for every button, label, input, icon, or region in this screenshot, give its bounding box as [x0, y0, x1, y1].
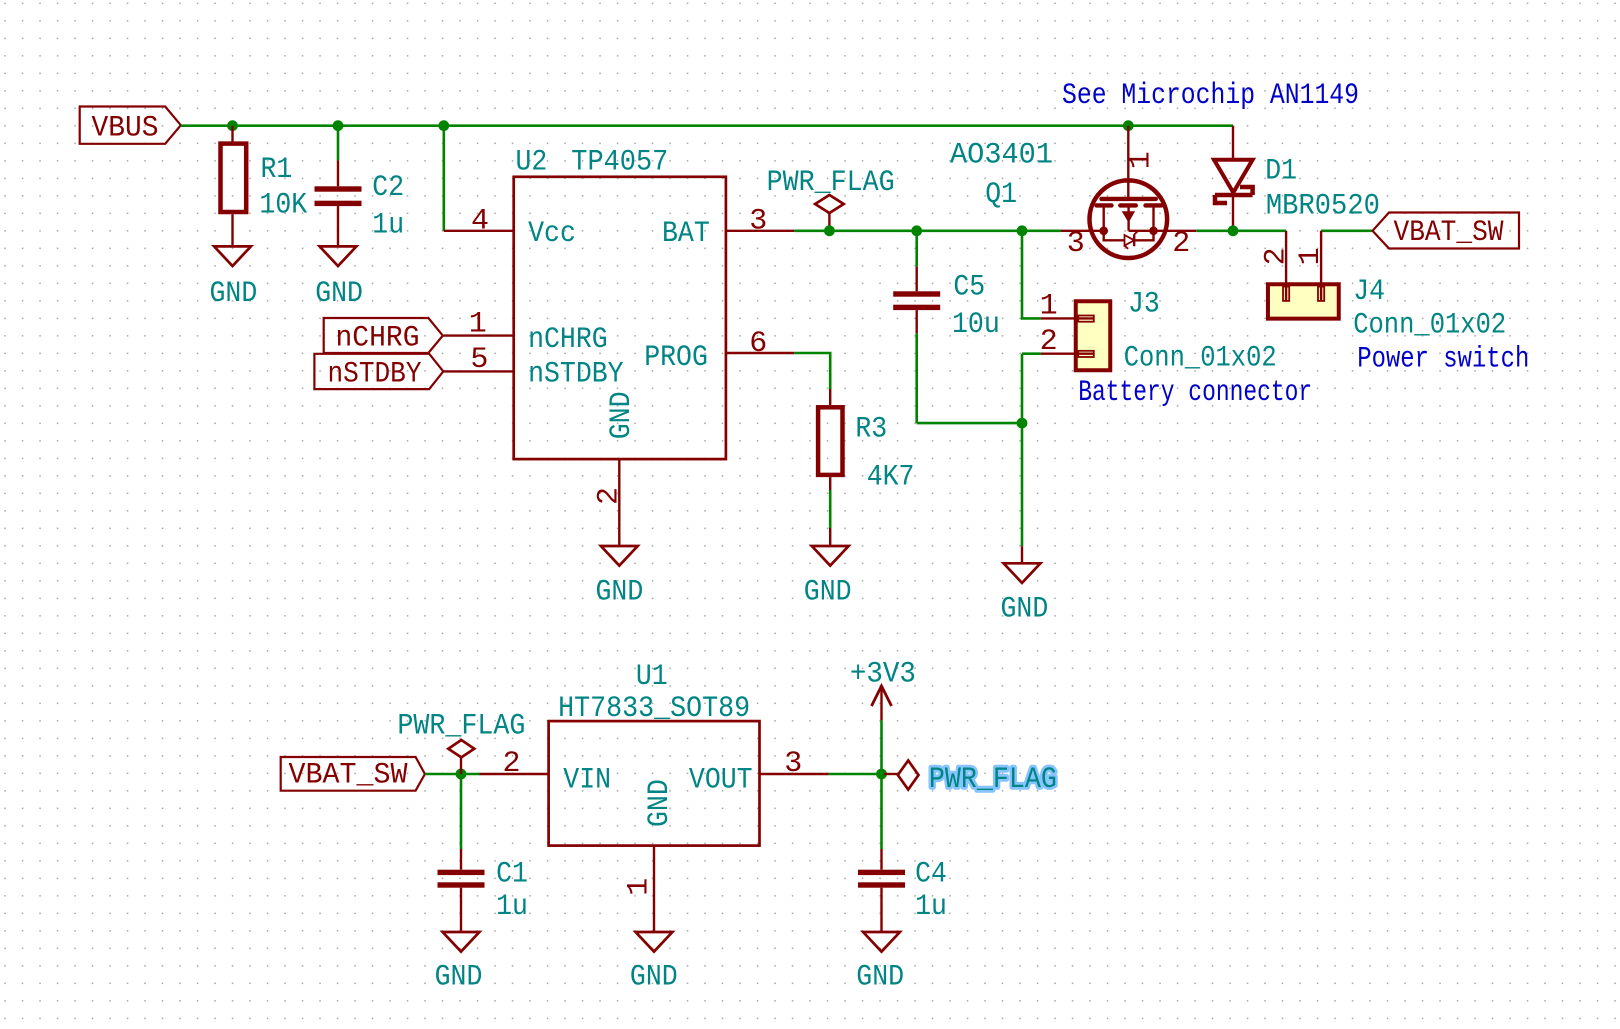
junction at +3V3 [876, 769, 887, 780]
svg-text:J3: J3 [1128, 288, 1160, 322]
svg-text:nSTDBY: nSTDBY [528, 357, 624, 391]
svg-text:1u: 1u [915, 890, 947, 924]
ground below C1 [443, 932, 480, 952]
U2 pin 2 GND [618, 459, 620, 546]
IC U2 TP4057 body [514, 177, 726, 459]
U2 pin 5 nSTDBY [444, 370, 514, 372]
svg-text:GND: GND [605, 392, 639, 440]
power +3V3 [880, 720, 883, 774]
svg-text:GND: GND [315, 277, 363, 311]
svg-text:1: 1 [1040, 290, 1058, 324]
svg-text:2: 2 [1259, 247, 1293, 265]
transistor Q1 AO3401 [1090, 180, 1168, 258]
svg-text:1: 1 [1294, 247, 1328, 265]
svg-text:nSTDBY: nSTDBY [328, 358, 422, 392]
svg-text:2: 2 [1172, 227, 1190, 261]
wire R3 to gnd [829, 490, 832, 528]
connector J4 pin 2 [1285, 231, 1287, 301]
IC U1 HT7833 body [549, 721, 760, 846]
junction at C1 [456, 769, 467, 780]
svg-text:D1: D1 [1265, 154, 1297, 188]
svg-text:6: 6 [749, 327, 767, 361]
svg-text:2: 2 [592, 487, 626, 505]
junction at R1 [227, 120, 238, 131]
svg-text:Battery connector: Battery connector [1078, 376, 1312, 410]
connector J4 pin 1 [1320, 231, 1322, 301]
ground below C2 [320, 246, 357, 266]
svg-text:3: 3 [749, 205, 767, 239]
svg-text:GND: GND [435, 961, 483, 995]
U2 pin 1 nCHRG [444, 334, 514, 336]
svg-text:1: 1 [622, 878, 656, 896]
svg-text:BAT: BAT [662, 217, 710, 251]
junction at D1 [1228, 225, 1239, 236]
power flag PWR_FLAG highlighted [884, 773, 900, 775]
wire VBUS rail [181, 124, 1233, 127]
connector J3 pin 1 [1041, 317, 1094, 319]
wire J3 pin1 branch [1022, 231, 1041, 319]
svg-text:GND: GND [804, 576, 852, 610]
svg-text:3: 3 [1067, 227, 1085, 261]
svg-text:nCHRG: nCHRG [528, 323, 608, 357]
svg-text:1: 1 [1125, 151, 1159, 169]
wire VOUT to +3V3 [829, 773, 882, 776]
net label VBUS [80, 107, 181, 144]
resistor R3 [829, 389, 831, 405]
U1 pin 3 VOUT [760, 773, 829, 775]
U2 pin 3 BAT [726, 230, 794, 232]
svg-text:1: 1 [469, 308, 487, 342]
Q1 pin 3 line [1061, 230, 1104, 232]
svg-text:nCHRG: nCHRG [336, 322, 420, 356]
wire PROG to R3 [794, 353, 830, 389]
svg-text:VBUS: VBUS [92, 112, 159, 146]
svg-text:C1: C1 [496, 857, 528, 891]
net label nCHRG [324, 318, 443, 353]
diode D1 MBR0520 [1232, 126, 1234, 160]
wire C4 branch [880, 774, 883, 849]
svg-text:PWR_FLAG: PWR_FLAG [397, 710, 525, 744]
svg-text:3: 3 [784, 747, 802, 781]
ground below J3 [1021, 546, 1023, 563]
connector J3 body [1076, 301, 1111, 370]
svg-text:+3V3: +3V3 [850, 658, 916, 692]
ground below R3 [829, 528, 831, 546]
connector J3 pin 2 [1041, 353, 1094, 355]
svg-text:VIN: VIN [563, 764, 611, 798]
svg-text:VOUT: VOUT [689, 764, 753, 798]
svg-text:GND: GND [1001, 592, 1049, 626]
svg-text:VBAT_SW: VBAT_SW [1394, 216, 1504, 250]
junction at PWR_FLAG [824, 225, 835, 236]
svg-text:See Microchip AN1149: See Microchip AN1149 [1062, 79, 1359, 113]
svg-text:2: 2 [502, 747, 520, 781]
ground below R1 [214, 246, 251, 266]
ground below U2 [601, 546, 638, 566]
svg-text:Power switch: Power switch [1357, 343, 1529, 377]
junction at C5 [911, 225, 922, 236]
wire VBAT_SW to VIN [425, 773, 480, 776]
svg-text:U1: U1 [636, 660, 668, 694]
junction at C5/J3 gnd [1017, 418, 1028, 429]
svg-text:GND: GND [630, 961, 678, 995]
svg-text:TP4057: TP4057 [571, 145, 668, 179]
svg-text:U2: U2 [516, 145, 548, 179]
power flag PWR_FLAG near VBAT_SW [460, 757, 462, 774]
svg-text:C2: C2 [372, 171, 404, 205]
svg-text:VBAT_SW: VBAT_SW [289, 758, 408, 792]
ground below U1 [636, 932, 673, 952]
svg-text:1u: 1u [372, 209, 404, 243]
U2 pin 6 PROG [726, 352, 794, 354]
net label nSTDBY [314, 354, 443, 389]
svg-text:R1: R1 [261, 153, 293, 187]
svg-text:AO3401: AO3401 [950, 139, 1053, 173]
svg-text:R3: R3 [855, 412, 887, 446]
junction at C2 [333, 120, 344, 131]
svg-text:J4: J4 [1353, 275, 1385, 309]
svg-text:5: 5 [470, 343, 488, 377]
wire to gnd below J3 [1021, 423, 1024, 546]
capacitor C1 [460, 849, 462, 870]
connector J4 body [1268, 284, 1339, 318]
wire C5 top [915, 231, 918, 267]
svg-text:GND: GND [856, 961, 904, 995]
wire C1 branch [460, 774, 463, 849]
svg-text:10K: 10K [259, 189, 307, 223]
U2 pin 4 Vcc [444, 230, 514, 232]
power flag PWR_FLAG near U2 [828, 213, 830, 231]
junction at Vcc branch [438, 120, 449, 131]
wire C2 to rail [337, 126, 340, 161]
U1 pin 1 GND [653, 846, 655, 932]
capacitor C5 [916, 267, 918, 292]
svg-text:HT7833_SOT89: HT7833_SOT89 [558, 692, 750, 726]
net label VBAT_SW top [1373, 213, 1520, 249]
capacitor C4 [880, 849, 882, 870]
svg-text:PROG: PROG [644, 341, 708, 375]
wire BAT rail [794, 230, 1061, 233]
svg-text:PWR_FLAG: PWR_FLAG [767, 166, 895, 200]
svg-text:Conn_01x02: Conn_01x02 [1353, 308, 1506, 342]
resistor R1 [231, 126, 233, 142]
Q1 pin 2 line [1154, 230, 1197, 232]
ground below C4 [863, 932, 900, 952]
wire BAT to J4 pin2 [1196, 230, 1286, 233]
svg-text:10u: 10u [952, 308, 1000, 342]
svg-text:PWR_FLAG: PWR_FLAG [929, 763, 1057, 797]
wire J3 pin2 branch [1022, 352, 1041, 355]
svg-text:Vcc: Vcc [528, 217, 576, 251]
junction at J3 branch [1017, 225, 1028, 236]
svg-text:1u: 1u [496, 890, 528, 924]
svg-text:GND: GND [643, 779, 677, 827]
junction at Q1 gate [1123, 120, 1134, 131]
wire J4 pin1 to VBAT_SW [1321, 230, 1372, 233]
svg-text:GND: GND [596, 576, 644, 610]
svg-text:GND: GND [210, 277, 258, 311]
capacitor C2 [337, 160, 339, 186]
svg-text:MBR0520: MBR0520 [1266, 190, 1380, 224]
U1 pin 2 VIN [480, 773, 549, 775]
svg-text:C4: C4 [915, 857, 947, 891]
svg-text:Conn_01x02: Conn_01x02 [1124, 341, 1277, 375]
svg-text:2: 2 [1040, 325, 1058, 359]
net label VBAT_SW bottom [281, 757, 425, 791]
svg-text:4: 4 [471, 205, 489, 239]
wire Vcc branch [442, 126, 445, 231]
svg-text:4K7: 4K7 [867, 461, 915, 495]
svg-text:C5: C5 [953, 271, 985, 305]
svg-text:Q1: Q1 [985, 178, 1017, 212]
wire C5 bottom [915, 333, 918, 423]
